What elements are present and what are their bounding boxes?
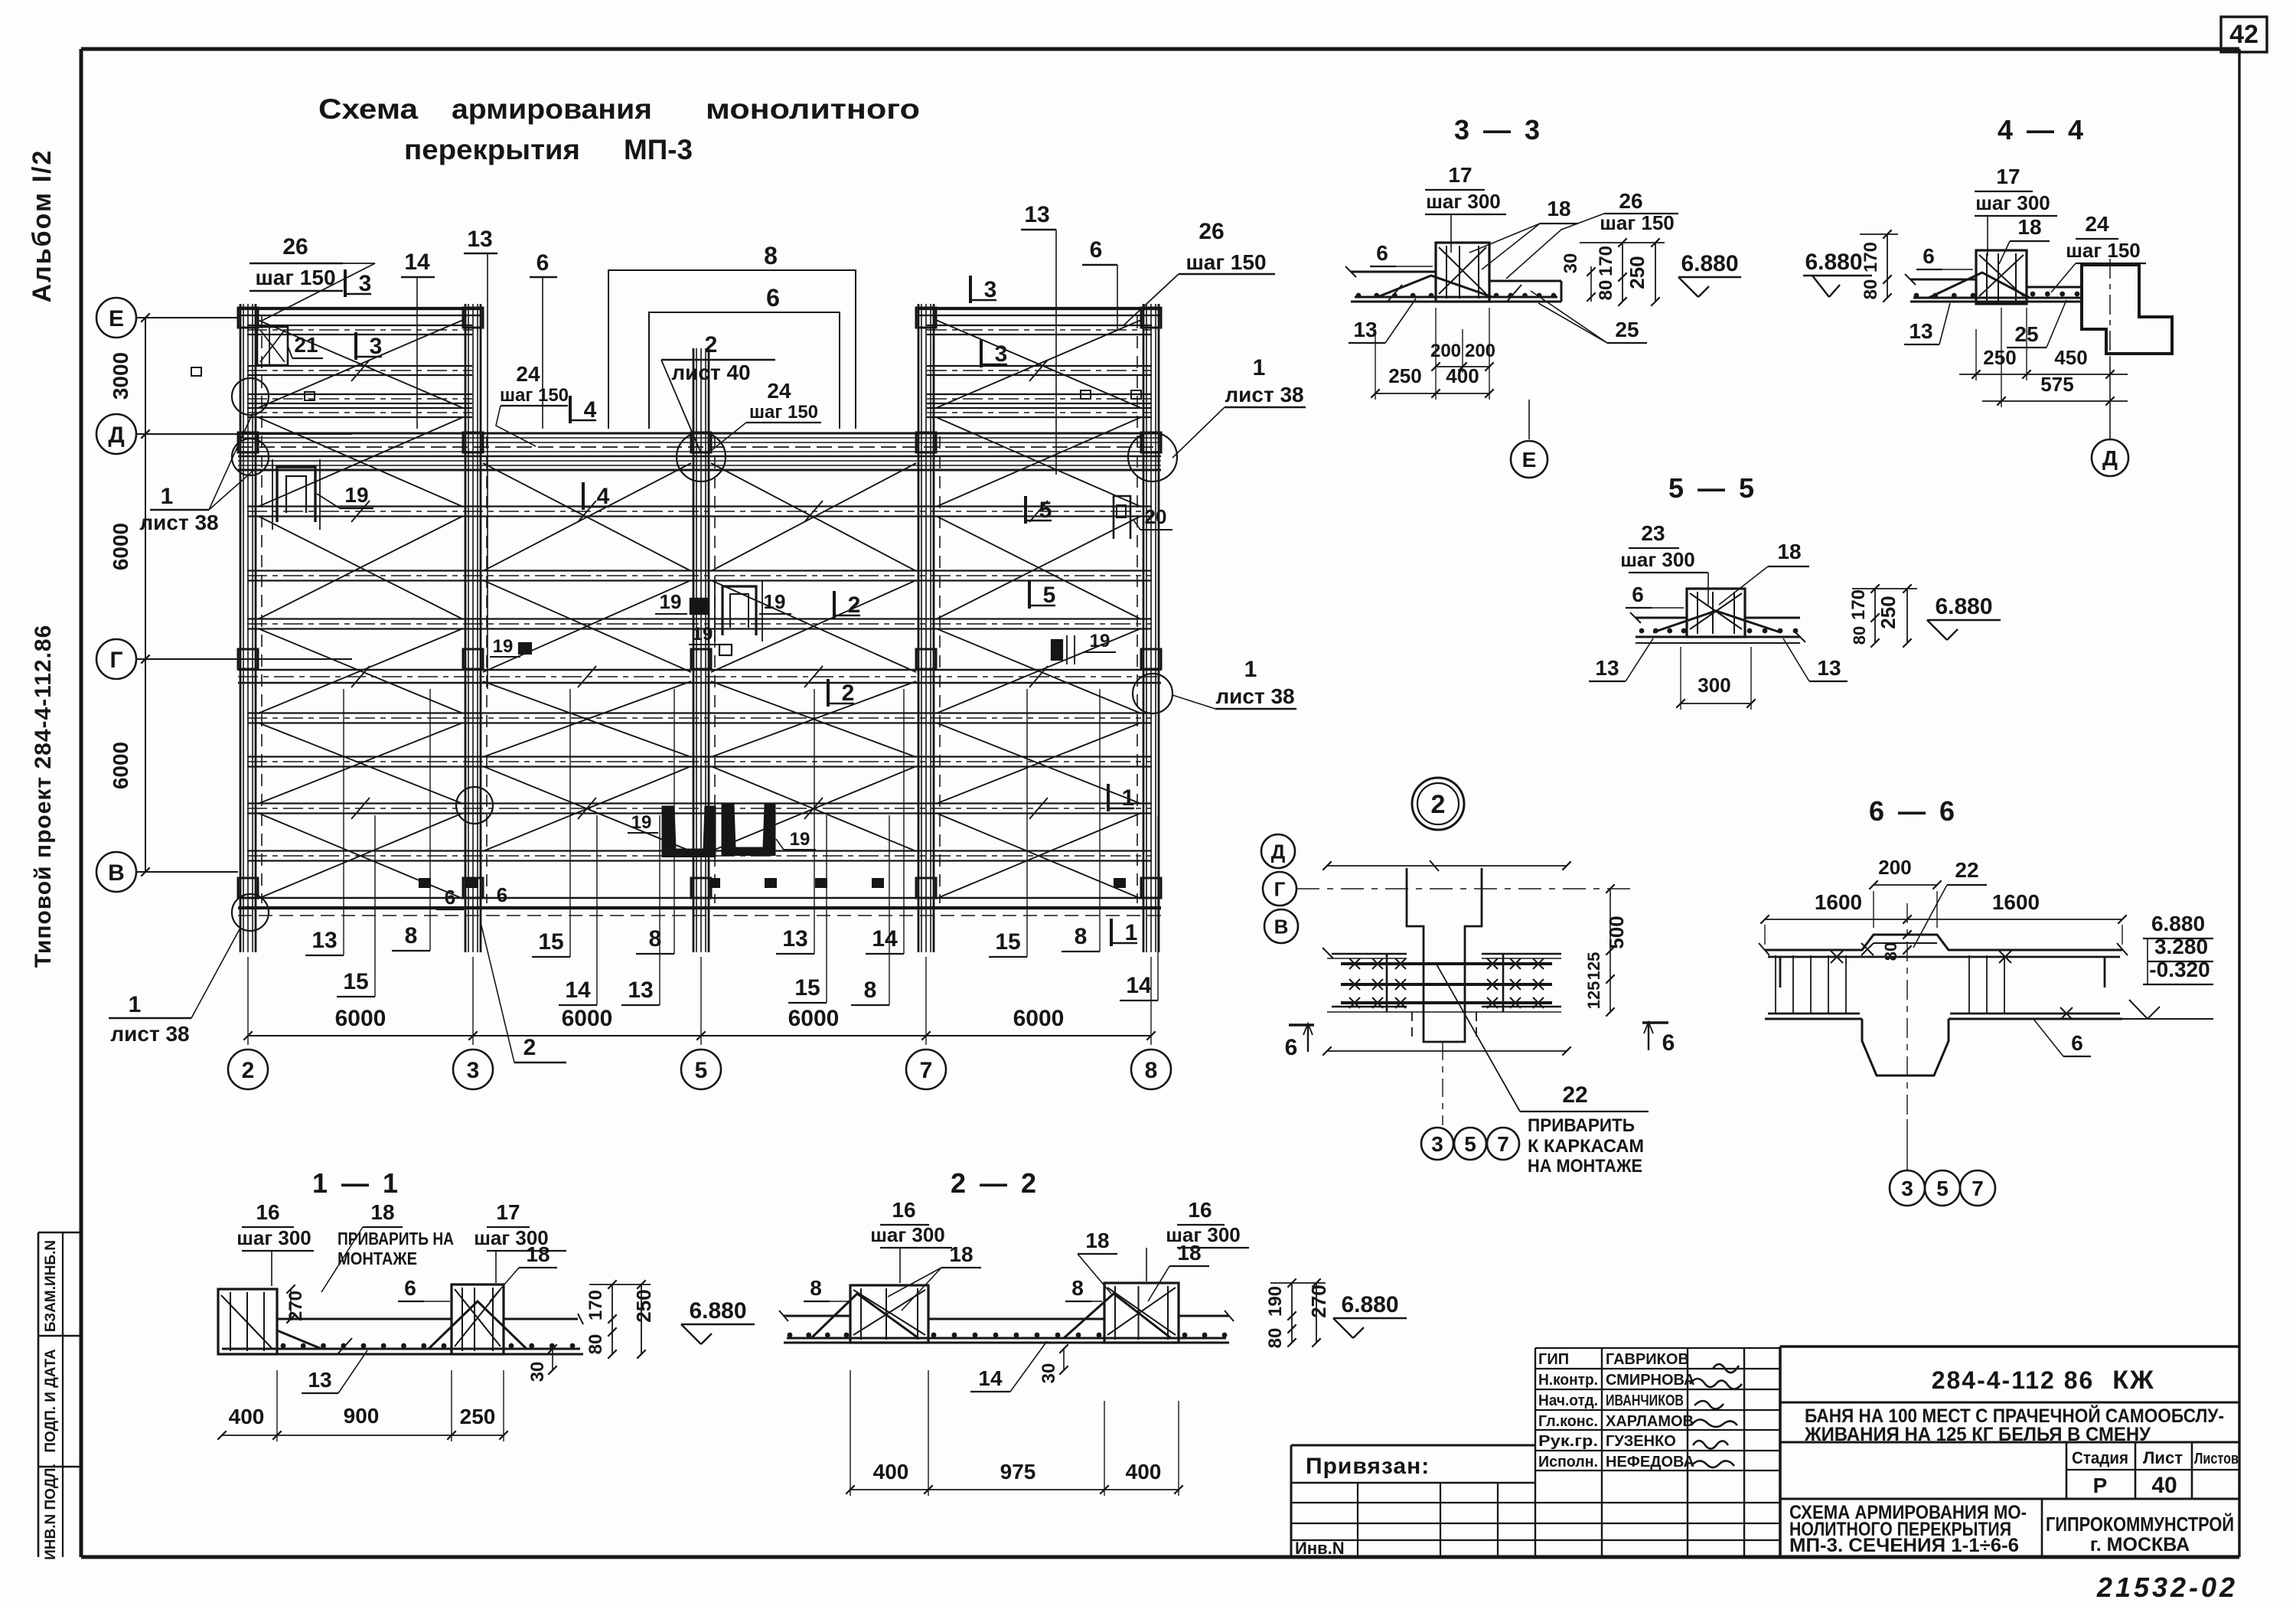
svg-text:26: 26 (1199, 219, 1224, 244)
svg-text:6: 6 (404, 1276, 416, 1300)
svg-text:2: 2 (242, 1058, 255, 1083)
svg-text:лист 38: лист 38 (139, 511, 218, 534)
svg-text:1: 1 (1122, 785, 1135, 811)
svg-text:2: 2 (523, 1035, 536, 1060)
svg-text:3: 3 (1901, 1177, 1913, 1200)
svg-text:13: 13 (311, 928, 337, 953)
svg-text:450: 450 (2054, 346, 2087, 369)
svg-text:СМИРНОВА: СМИРНОВА (1606, 1372, 1694, 1389)
svg-text:21: 21 (294, 333, 318, 357)
svg-text:В: В (108, 860, 125, 886)
plan: diagonal rebar marks (258, 320, 463, 408)
svg-text:6: 6 (1923, 244, 1935, 268)
plan: openings 19 20 21 (257, 327, 288, 365)
svg-text:ПОДП. И ДАТА: ПОДП. И ДАТА (43, 1349, 59, 1453)
svg-text:13: 13 (467, 227, 492, 252)
svg-text:13: 13 (308, 1368, 331, 1392)
svg-text:6000: 6000 (109, 523, 132, 570)
svg-text:13: 13 (1024, 202, 1049, 227)
svg-text:400: 400 (873, 1460, 909, 1484)
svg-text:22: 22 (1955, 858, 1978, 882)
svg-text:18: 18 (2017, 215, 2041, 239)
svg-text:МОНТАЖЕ: МОНТАЖЕ (338, 1249, 417, 1268)
svg-text:18: 18 (1085, 1229, 1109, 1252)
svg-text:170: 170 (1848, 589, 1869, 620)
plan: column strips axes 2,3,5,7,8 (240, 304, 242, 952)
svg-text:ИНВ.N ПОДЛ.: ИНВ.N ПОДЛ. (43, 1464, 59, 1560)
svg-text:6: 6 (1662, 1030, 1675, 1056)
svg-text:5: 5 (1039, 498, 1052, 523)
svg-text:13: 13 (628, 978, 653, 1003)
main title text (318, 93, 920, 165)
svg-text:15: 15 (995, 929, 1020, 955)
svg-text:284-4-112 86: 284-4-112 86 (1932, 1366, 2095, 1394)
svg-text:2: 2 (1431, 790, 1446, 819)
svg-text:190: 190 (1265, 1286, 1286, 1317)
svg-text:ИВАНЧИКОВ: ИВАНЧИКОВ (1606, 1392, 1684, 1409)
svg-text:1600: 1600 (1815, 890, 1862, 914)
svg-text:18: 18 (370, 1200, 394, 1224)
svg-text:ГИПРОКОММУНСТРОЙ: ГИПРОКОММУНСТРОЙ (2046, 1513, 2234, 1536)
svg-text:шаг 150: шаг 150 (500, 385, 569, 406)
svg-text:6: 6 (1285, 1035, 1298, 1060)
svg-text:42: 42 (2229, 20, 2258, 49)
svg-text:5: 5 (1043, 583, 1056, 608)
svg-text:6: 6 (497, 883, 507, 906)
svg-text:6: 6 (1090, 237, 1103, 263)
svg-text:7: 7 (920, 1058, 933, 1083)
svg-text:Д: Д (108, 423, 124, 448)
svg-text:24: 24 (516, 362, 540, 386)
svg-text:3: 3 (359, 271, 372, 296)
svg-text:6: 6 (1376, 241, 1388, 265)
svg-text:г. МОСКВА: г. МОСКВА (2090, 1534, 2190, 1555)
plan: node-2 detail circles (232, 378, 269, 415)
svg-text:ХАРЛАМОВ: ХАРЛАМОВ (1606, 1413, 1694, 1430)
svg-text:6: 6 (2071, 1031, 2083, 1055)
svg-text:6: 6 (536, 250, 550, 276)
svg-text:170: 170 (1861, 242, 1881, 273)
svg-text:шаг 150: шаг 150 (255, 266, 335, 289)
title block: Privyazan table (1291, 1444, 1535, 1447)
svg-text:1: 1 (1244, 657, 1257, 682)
svg-text:3: 3 (984, 277, 997, 302)
svg-text:14: 14 (978, 1366, 1003, 1390)
svg-text:200: 200 (1878, 856, 1911, 879)
svg-text:3.280: 3.280 (2154, 935, 2208, 958)
svg-text:Привязан:: Привязан: (1306, 1454, 1430, 1479)
svg-text:ГУЗЕНКО: ГУЗЕНКО (1606, 1433, 1676, 1450)
svg-text:1: 1 (161, 484, 174, 509)
svg-text:7: 7 (1497, 1132, 1509, 1156)
svg-text:250: 250 (632, 1289, 655, 1322)
svg-text:250: 250 (1983, 346, 2016, 369)
svg-text:шаг 150: шаг 150 (2066, 239, 2141, 262)
svg-text:200: 200 (1430, 341, 1461, 361)
svg-text:МП-3. СЕЧЕНИЯ 1-1÷6-6: МП-3. СЕЧЕНИЯ 1-1÷6-6 (1789, 1535, 2019, 1556)
svg-text:170: 170 (585, 1290, 606, 1320)
svg-text:шаг 300: шаг 300 (1426, 190, 1501, 213)
svg-text:Стадия: Стадия (2072, 1448, 2128, 1467)
svg-text:19: 19 (631, 812, 652, 833)
svg-text:19: 19 (344, 483, 368, 507)
svg-text:8: 8 (1071, 1276, 1084, 1300)
svg-text:16: 16 (1188, 1198, 1212, 1222)
svg-text:26: 26 (282, 234, 308, 260)
detail node 2 (1261, 778, 1675, 1177)
svg-text:Рук.гр.: Рук.гр. (1538, 1433, 1598, 1450)
svg-text:14: 14 (1126, 973, 1152, 998)
svg-text:3: 3 (467, 1058, 480, 1083)
section 1-1 (217, 1167, 755, 1441)
svg-text:80: 80 (1881, 942, 1900, 961)
svg-text:6.880: 6.880 (2151, 912, 2205, 935)
svg-text:К КАРКАСАМ: К КАРКАСАМ (1528, 1136, 1644, 1157)
svg-text:14: 14 (872, 926, 898, 952)
svg-text:1: 1 (1125, 920, 1138, 945)
svg-text:Гл.конс.: Гл.конс. (1538, 1413, 1598, 1430)
svg-text:Нач.отд.: Нач.отд. (1538, 1392, 1598, 1409)
svg-text:18: 18 (1777, 540, 1801, 563)
plan: grid axis circles and dimension lines (96, 298, 136, 338)
svg-text:Инв.N: Инв.N (1295, 1539, 1345, 1558)
svg-text:Листов: Листов (2194, 1451, 2239, 1467)
svg-text:6000: 6000 (335, 1006, 386, 1031)
svg-text:2: 2 (848, 592, 861, 618)
svg-text:8: 8 (864, 978, 877, 1003)
svg-text:575: 575 (2040, 373, 2073, 396)
svg-text:13: 13 (1595, 656, 1619, 680)
svg-text:5: 5 (1936, 1177, 1949, 1200)
svg-text:250: 250 (460, 1405, 496, 1428)
svg-text:2 — 2: 2 — 2 (951, 1167, 1039, 1199)
svg-text:Г: Г (1274, 877, 1286, 900)
svg-text:шаг 300: шаг 300 (236, 1226, 311, 1249)
svg-text:18: 18 (526, 1242, 550, 1266)
svg-text:8: 8 (810, 1276, 822, 1300)
svg-text:19: 19 (693, 624, 713, 645)
svg-text:Г: Г (109, 648, 122, 673)
svg-text:19: 19 (660, 590, 682, 613)
left margin stamp boxes (38, 1232, 82, 1234)
svg-text:18: 18 (1177, 1241, 1201, 1265)
svg-text:шаг 150: шаг 150 (1186, 250, 1266, 274)
svg-text:17: 17 (1448, 163, 1472, 187)
svg-text:4 — 4: 4 — 4 (1998, 114, 2086, 145)
svg-text:6: 6 (1632, 583, 1644, 606)
svg-text:4: 4 (584, 397, 597, 423)
svg-text:8: 8 (764, 242, 778, 269)
svg-text:15: 15 (343, 969, 368, 994)
svg-text:1: 1 (1253, 355, 1266, 380)
svg-text:40: 40 (2151, 1473, 2177, 1498)
svg-text:80: 80 (1850, 626, 1869, 645)
svg-text:24: 24 (2085, 212, 2109, 236)
svg-text:шаг 300: шаг 300 (1620, 548, 1695, 571)
svg-text:8: 8 (1075, 924, 1088, 949)
svg-text:3 — 3: 3 — 3 (1454, 114, 1543, 145)
svg-text:250: 250 (1388, 364, 1421, 387)
section 4-4 (1803, 114, 2172, 476)
svg-text:перекрытия: перекрытия (404, 134, 580, 165)
svg-text:Типовой проект 284-4-112.86: Типовой проект 284-4-112.86 (31, 625, 56, 968)
svg-text:3: 3 (995, 341, 1008, 367)
svg-text:6000: 6000 (109, 742, 132, 789)
plan: section cut marks (344, 269, 347, 297)
plan: column markers at grid intersections (238, 308, 258, 328)
svg-text:125: 125 (1584, 952, 1603, 981)
svg-text:18: 18 (949, 1242, 973, 1266)
svg-text:21532-02: 21532-02 (2096, 1572, 2238, 1603)
svg-text:250: 250 (1877, 596, 1900, 628)
svg-text:ПРИВАРИТЬ: ПРИВАРИТЬ (1528, 1115, 1635, 1136)
svg-text:30: 30 (1561, 253, 1581, 274)
svg-text:шаг 300: шаг 300 (870, 1223, 945, 1246)
svg-text:НЕФЕДОВА: НЕФЕДОВА (1606, 1454, 1694, 1471)
svg-text:В: В (1274, 915, 1289, 938)
svg-text:975: 975 (1000, 1460, 1036, 1484)
svg-text:7: 7 (1971, 1177, 1984, 1200)
svg-text:20: 20 (1145, 505, 1167, 528)
svg-text:250: 250 (1626, 256, 1649, 289)
svg-text:400: 400 (1126, 1460, 1162, 1484)
svg-text:Альбом I/2: Альбом I/2 (28, 149, 57, 303)
sheet number box 42 (2221, 17, 2267, 52)
svg-text:16: 16 (892, 1198, 915, 1222)
svg-text:6.880: 6.880 (1805, 250, 1862, 275)
svg-text:1600: 1600 (1992, 890, 2040, 914)
svg-text:19: 19 (1090, 631, 1110, 651)
svg-text:НА МОНТАЖЕ: НА МОНТАЖЕ (1528, 1156, 1642, 1177)
svg-text:200: 200 (1465, 341, 1495, 361)
svg-text:14: 14 (565, 978, 591, 1003)
svg-text:19: 19 (790, 829, 810, 850)
svg-text:125: 125 (1584, 981, 1603, 1010)
svg-text:-0.320: -0.320 (2149, 958, 2210, 981)
svg-text:19: 19 (764, 590, 786, 613)
svg-text:30: 30 (527, 1362, 548, 1382)
svg-text:2: 2 (705, 332, 718, 357)
svg-text:80: 80 (1861, 279, 1881, 300)
svg-text:6: 6 (766, 284, 780, 312)
svg-text:Н.контр.: Н.контр. (1538, 1372, 1598, 1389)
svg-text:13: 13 (1909, 319, 1932, 343)
svg-text:13: 13 (1817, 656, 1841, 680)
svg-text:270: 270 (285, 1291, 306, 1321)
svg-text:5: 5 (695, 1058, 708, 1083)
section 2-2 (779, 1167, 1407, 1496)
svg-text:16: 16 (256, 1200, 279, 1224)
svg-text:15: 15 (538, 929, 563, 955)
title block (1291, 1346, 2239, 1603)
svg-text:6.880: 6.880 (1341, 1292, 1398, 1317)
svg-text:1: 1 (129, 992, 142, 1017)
svg-text:шаг 150: шаг 150 (1600, 211, 1675, 234)
svg-text:23: 23 (1641, 521, 1665, 545)
svg-text:30: 30 (1039, 1363, 1059, 1384)
plan view: reinforcement scheme of slab MP-3 (96, 202, 1306, 1089)
svg-text:400: 400 (229, 1405, 265, 1428)
svg-text:Схема: Схема (318, 93, 418, 125)
title block: staff signature table (1535, 1347, 1780, 1349)
svg-text:80: 80 (585, 1334, 606, 1355)
svg-text:6: 6 (445, 886, 455, 909)
svg-text:Исполн.: Исполн. (1538, 1454, 1598, 1471)
svg-text:6 — 6: 6 — 6 (1869, 795, 1958, 827)
svg-text:15: 15 (794, 975, 820, 1000)
svg-text:монолитного: монолитного (706, 93, 920, 125)
svg-text:Д: Д (1271, 840, 1286, 863)
svg-text:14: 14 (404, 250, 430, 275)
svg-text:1 — 1: 1 — 1 (312, 1167, 401, 1199)
svg-text:18: 18 (1547, 197, 1570, 220)
svg-text:24: 24 (767, 379, 791, 403)
svg-text:270: 270 (1307, 1284, 1330, 1317)
svg-text:шаг 150: шаг 150 (749, 402, 818, 423)
svg-text:8: 8 (1145, 1058, 1158, 1083)
svg-text:КЖ: КЖ (2112, 1366, 2154, 1395)
svg-text:80: 80 (1265, 1328, 1286, 1349)
svg-text:3000: 3000 (109, 352, 132, 400)
svg-text:4: 4 (597, 484, 610, 509)
svg-text:5: 5 (1464, 1132, 1476, 1156)
svg-text:ГИП: ГИП (1538, 1351, 1569, 1368)
svg-text:17: 17 (496, 1200, 520, 1224)
svg-text:Е: Е (109, 306, 124, 331)
svg-text:6000: 6000 (562, 1006, 613, 1031)
plan: horizontal rib bands (238, 307, 481, 310)
svg-text:3: 3 (1431, 1132, 1443, 1156)
svg-text:6000: 6000 (788, 1006, 840, 1031)
svg-text:6.880: 6.880 (1681, 251, 1738, 276)
svg-text:шаг 300: шаг 300 (1975, 191, 2050, 214)
svg-text:17: 17 (1996, 165, 2020, 188)
svg-text:ЖИВАНИЯ НА 125 КГ БЕЛЬЯ В: ЖИВАНИЯ НА 125 КГ БЕЛЬЯ В СМЕНУ (1804, 1424, 2151, 1445)
section 3-3 (1345, 114, 1741, 478)
svg-text:Р: Р (2093, 1474, 2108, 1497)
svg-text:лист 38: лист 38 (1225, 383, 1303, 406)
svg-text:5 — 5: 5 — 5 (1668, 472, 1757, 504)
svg-text:лист 40: лист 40 (671, 361, 750, 384)
svg-text:БЗАМ.ИНБ.N: БЗАМ.ИНБ.N (43, 1240, 59, 1332)
svg-text:ГАВРИКОВ: ГАВРИКОВ (1606, 1351, 1689, 1368)
svg-text:Д: Д (2102, 446, 2118, 470)
svg-text:8: 8 (405, 923, 418, 948)
svg-text:армирования: армирования (452, 93, 652, 125)
svg-text:Лист: Лист (2143, 1448, 2183, 1467)
svg-text:6.880: 6.880 (689, 1298, 746, 1324)
svg-text:500: 500 (1605, 916, 1628, 948)
svg-text:300: 300 (1698, 674, 1730, 697)
svg-text:МП-3: МП-3 (624, 134, 693, 165)
svg-text:80: 80 (1596, 280, 1616, 301)
svg-text:26: 26 (1619, 189, 1642, 213)
svg-text:900: 900 (344, 1404, 380, 1428)
svg-text:19: 19 (493, 636, 514, 657)
svg-text:6.880: 6.880 (1935, 594, 1992, 619)
svg-text:лист 38: лист 38 (1215, 684, 1294, 708)
svg-text:Е: Е (1522, 448, 1537, 472)
svg-text:лист 38: лист 38 (110, 1022, 189, 1046)
section 5-5 (1589, 472, 2001, 710)
svg-text:170: 170 (1596, 246, 1616, 276)
section 6-6 (1759, 795, 2213, 1206)
svg-text:25: 25 (1615, 318, 1639, 341)
svg-text:13: 13 (1353, 318, 1377, 341)
svg-text:22: 22 (1562, 1082, 1587, 1108)
svg-text:2: 2 (842, 681, 855, 706)
svg-text:3: 3 (370, 334, 383, 359)
svg-text:13: 13 (782, 926, 807, 952)
svg-text:6000: 6000 (1013, 1006, 1065, 1031)
